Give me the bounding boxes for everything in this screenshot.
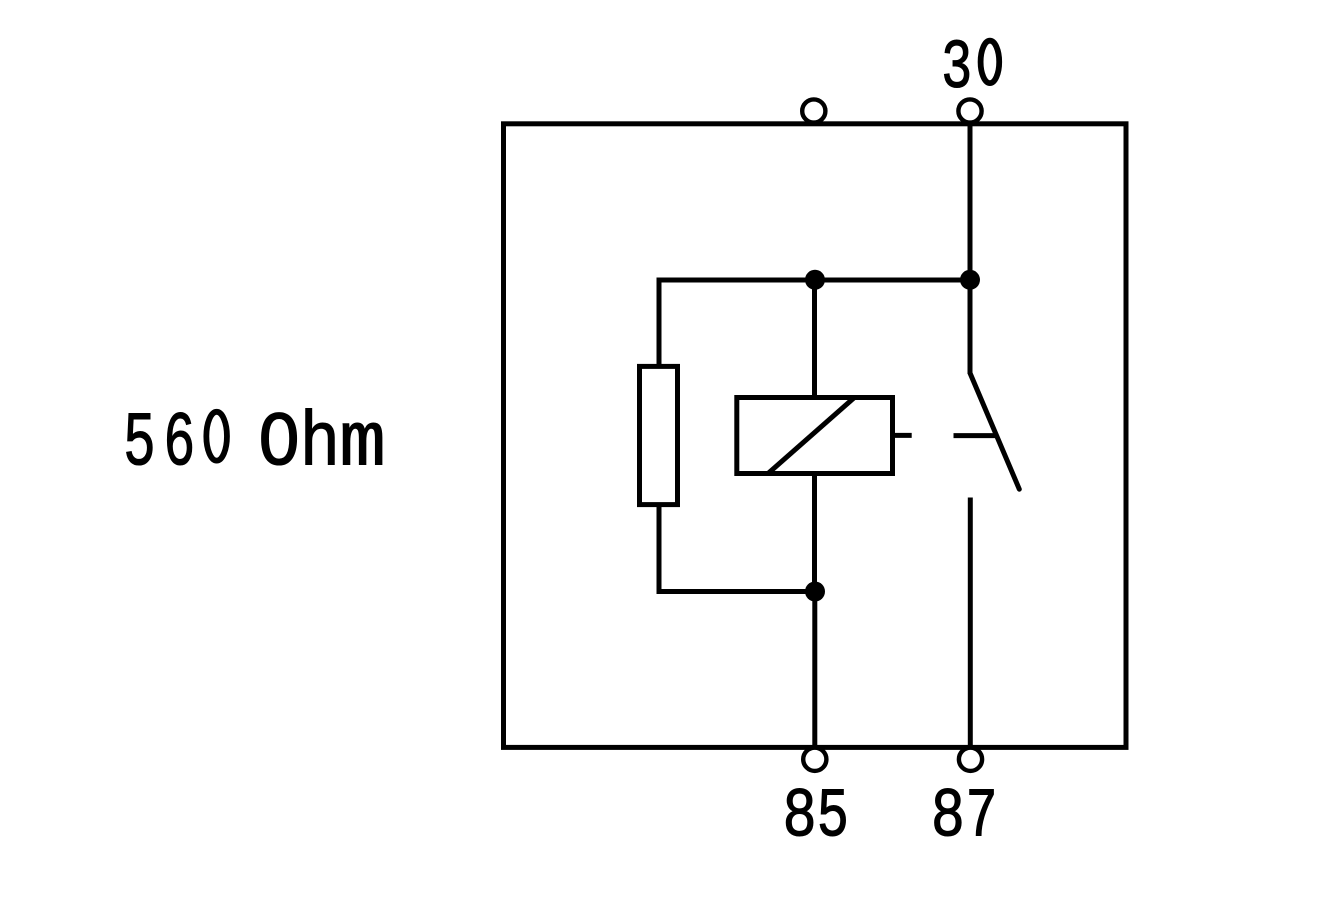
svg-text:m: m xyxy=(339,402,385,489)
wire: bottom horizontal from resistor to coil node xyxy=(657,589,816,594)
wire: coil bottom lead xyxy=(812,474,817,592)
wire: top interior horizontal bus xyxy=(657,278,971,283)
svg-text:O: O xyxy=(258,402,300,489)
svg-text:h: h xyxy=(300,401,341,488)
terminal 30 circle (top right) xyxy=(958,99,981,122)
terminal 87 circle (bottom right) xyxy=(959,748,982,771)
svg-text:3: 3 xyxy=(941,29,972,109)
resistor R 560 Ohm body xyxy=(640,366,678,504)
svg-text:5: 5 xyxy=(817,777,849,857)
wire: terminal 85 lead from bottom node down xyxy=(812,592,817,748)
label 87 xyxy=(931,777,998,857)
coil diagonal stroke xyxy=(768,398,854,474)
wire: resistor bottom lead xyxy=(657,505,662,595)
svg-text:8: 8 xyxy=(931,778,965,857)
relay housing outline xyxy=(504,124,1127,748)
svg-text:8: 8 xyxy=(783,778,817,857)
junction node at coil top / bus xyxy=(805,270,825,290)
junction node at bottom wire / 85 lead xyxy=(805,582,825,602)
svg-text:5: 5 xyxy=(123,402,156,489)
terminal 86 circle (unlabeled, top left) xyxy=(802,99,825,122)
terminal 85 circle (bottom left) xyxy=(803,748,826,771)
wire: coil top lead xyxy=(812,280,817,398)
wire: terminal 30 lead down to junction xyxy=(968,124,973,280)
switch actuator dash xyxy=(954,433,997,438)
coil actuator stub xyxy=(895,433,912,438)
switch movable contact arm xyxy=(970,373,1019,489)
svg-text:7: 7 xyxy=(965,777,997,857)
svg-text:6: 6 xyxy=(163,401,195,488)
relay coil K1 body xyxy=(737,398,893,474)
junction node at 30 wire / bus xyxy=(960,270,980,290)
label 85 xyxy=(783,777,849,857)
switch movable arm pivot lead xyxy=(968,280,973,374)
label 30 xyxy=(941,29,999,109)
wire: switch fixed contact to terminal 87 xyxy=(968,498,973,748)
label 560 Ohm xyxy=(123,401,386,489)
wire: left branch down to resistor xyxy=(657,280,662,366)
